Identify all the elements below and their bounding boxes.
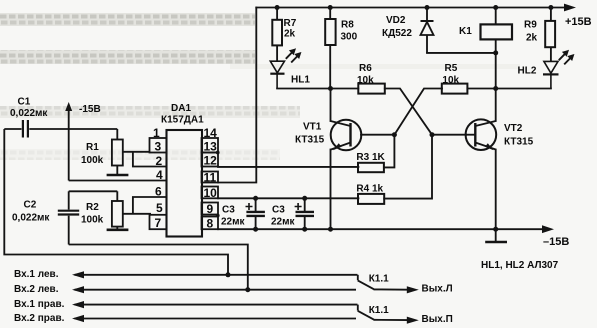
svg-text:КТ315: КТ315 bbox=[295, 135, 325, 146]
wire R6 right diagonal to VT2 base bbox=[385, 89, 432, 135]
svg-text:12: 12 bbox=[204, 154, 218, 168]
svg-text:-15В: -15В bbox=[79, 104, 101, 115]
svg-text:R3 1K: R3 1K bbox=[356, 152, 385, 163]
svg-text:10: 10 bbox=[204, 186, 218, 200]
resistor R1 bbox=[107, 129, 150, 175]
svg-text:С2: С2 bbox=[24, 200, 37, 211]
svg-text:–15В: –15В bbox=[543, 236, 569, 248]
IC pin box 7 bbox=[150, 215, 167, 229]
IC pin box 11 bbox=[202, 172, 219, 183]
svg-text:R1: R1 bbox=[86, 142, 99, 153]
svg-text:2k: 2k bbox=[526, 33, 538, 44]
supply arrow -15V top left bbox=[65, 102, 72, 181]
svg-text:Вх.2 прав.: Вх.2 прав. bbox=[14, 313, 65, 324]
wire node to VT2 base bbox=[432, 134, 466, 136]
svg-text:0,022мк: 0,022мк bbox=[10, 108, 48, 119]
svg-text:DA1: DA1 bbox=[171, 103, 191, 114]
svg-text:R6: R6 bbox=[359, 63, 372, 74]
svg-text:10k: 10k bbox=[442, 75, 459, 86]
IC pin box 8 bbox=[202, 217, 219, 230]
wire left edge C1 drop bbox=[4, 129, 228, 275]
svg-text:100k: 100k bbox=[81, 155, 104, 166]
capacitor C3 second bbox=[295, 198, 314, 229]
LED HL2 bbox=[543, 51, 573, 89]
arrow +15V bbox=[564, 4, 576, 12]
svg-text:Вых.П: Вых.П bbox=[422, 314, 453, 325]
svg-text:10k: 10k bbox=[357, 75, 374, 86]
dot pins 13-12 corner bbox=[216, 151, 220, 155]
wire pin10 line to R4 bbox=[218, 197, 358, 199]
svg-text:2k: 2k bbox=[284, 29, 296, 40]
svg-text:Вх.1 прав.: Вх.1 прав. bbox=[14, 299, 65, 310]
junction dots bottom rail bbox=[253, 227, 258, 232]
svg-text:Вых.Л: Вых.Л bbox=[422, 284, 453, 295]
dot pins 9-8 corner bbox=[216, 214, 220, 218]
svg-text:С3: С3 bbox=[222, 205, 235, 216]
IC pin box 12 bbox=[202, 153, 219, 167]
IC pin box 9 bbox=[202, 203, 219, 215]
transistor VT2 bbox=[466, 119, 497, 150]
svg-text:R2: R2 bbox=[86, 202, 99, 213]
wire C2 drop to input 2 bbox=[69, 245, 248, 290]
junction dot VT2 base bbox=[430, 132, 435, 137]
svg-text:5: 5 bbox=[156, 201, 163, 215]
svg-text:R7: R7 bbox=[284, 18, 297, 29]
input line Vx2 prav bbox=[72, 315, 356, 322]
switch K1.1 left bbox=[358, 280, 408, 289]
svg-text:11: 11 bbox=[204, 171, 217, 185]
input line Vx1 prav bbox=[72, 301, 358, 311]
LED HL1 bbox=[270, 50, 300, 89]
wire VT1 base to node bbox=[361, 134, 394, 136]
wire VT2 emitter bbox=[495, 150, 497, 230]
svg-text:Вх.2 лев.: Вх.2 лев. bbox=[14, 284, 59, 295]
svg-text:HL1, HL2 АЛ307: HL1, HL2 АЛ307 bbox=[481, 260, 559, 271]
svg-text:9: 9 bbox=[207, 202, 214, 216]
IC pin box 13 bbox=[202, 138, 219, 153]
svg-text:К1.1: К1.1 bbox=[369, 274, 389, 285]
resistor R3 bbox=[358, 163, 384, 172]
svg-text:КД522: КД522 bbox=[382, 28, 412, 39]
svg-text:7: 7 bbox=[155, 216, 162, 230]
resistor R7 bbox=[272, 8, 282, 62]
resistor R8 bbox=[325, 8, 335, 89]
wire R5 left diagonal to VT1 base bbox=[394, 89, 442, 135]
svg-text:13: 13 bbox=[204, 140, 218, 154]
svg-text:R9: R9 bbox=[524, 20, 537, 31]
svg-text:К157ДА1: К157ДА1 bbox=[161, 115, 204, 126]
svg-text:+15В: +15В bbox=[565, 16, 592, 28]
wire pin12 to R3 bbox=[218, 166, 358, 168]
svg-text:С3: С3 bbox=[272, 205, 285, 216]
svg-text:К1.1: К1.1 bbox=[369, 305, 389, 316]
wire R1 top feed bbox=[69, 190, 118, 192]
svg-text:R5: R5 bbox=[445, 63, 458, 74]
switch K1.1 right bbox=[358, 311, 408, 320]
svg-text:8: 8 bbox=[207, 217, 214, 231]
junction dots top rail bbox=[253, 5, 553, 232]
svg-text:С1: С1 bbox=[18, 97, 31, 108]
wire K1/VD2/VT2 collector vertical bbox=[495, 8, 497, 25]
input line Vx1 lev bbox=[72, 271, 358, 280]
svg-text:K1: K1 bbox=[459, 26, 472, 37]
capacitor C1 bbox=[4, 120, 117, 138]
resistor R6 bbox=[358, 84, 385, 94]
svg-text:300: 300 bbox=[341, 31, 358, 42]
wire R4 right step up bbox=[384, 135, 432, 199]
wire R3 right step up bbox=[384, 135, 395, 168]
resistor R2 bbox=[107, 191, 129, 230]
svg-text:22мк: 22мк bbox=[221, 217, 246, 228]
capacitor C2 bbox=[58, 191, 79, 244]
dot input1 bbox=[226, 272, 231, 277]
relay coil K1 bbox=[481, 24, 513, 39]
ground bar VT2 emitter bbox=[485, 229, 507, 242]
junction dot HL1 node bbox=[328, 86, 333, 91]
junction dot VT1 base bbox=[392, 132, 397, 137]
dot input2 bbox=[245, 287, 250, 292]
svg-text:HL2: HL2 bbox=[518, 66, 537, 77]
IC pin box 10 bbox=[202, 187, 219, 199]
svg-text:VD2: VD2 bbox=[386, 15, 406, 26]
IC pin box 3 bbox=[150, 138, 167, 153]
wire R5 to HL2 node bbox=[467, 88, 551, 90]
wire top +15V rail bbox=[256, 7, 566, 9]
IC DA1 body bbox=[167, 130, 203, 237]
junction dot R5 node bbox=[493, 86, 498, 91]
svg-text:3: 3 bbox=[155, 140, 162, 154]
capacitor C3 first bbox=[246, 198, 265, 229]
arrow -15V bottom bbox=[542, 225, 554, 233]
resistor R5 bbox=[442, 84, 468, 94]
wire rail left drop to pin 11 bbox=[218, 8, 256, 183]
input line Vx2 lev bbox=[72, 286, 356, 293]
resistor R4 bbox=[358, 194, 384, 204]
wire VD2 bottom link bbox=[427, 52, 496, 54]
svg-text:R8: R8 bbox=[341, 19, 354, 30]
wire VT1 emitter bbox=[330, 150, 332, 230]
transistor VT1 bbox=[331, 120, 362, 151]
svg-text:100k: 100k bbox=[81, 215, 104, 226]
wire bottom -15V rail bbox=[218, 228, 543, 230]
svg-text:КТ315: КТ315 bbox=[504, 137, 534, 148]
svg-text:Вх.1 лев.: Вх.1 лев. bbox=[14, 269, 59, 280]
svg-text:VT1: VT1 bbox=[303, 122, 322, 133]
svg-text:VT2: VT2 bbox=[504, 123, 523, 134]
svg-text:0,022мк: 0,022мк bbox=[12, 213, 50, 224]
diode VD2 bbox=[421, 8, 434, 53]
resistor R9 bbox=[545, 8, 555, 62]
svg-text:HL1: HL1 bbox=[291, 74, 310, 85]
junction dot VD2-K1 bbox=[493, 50, 498, 55]
svg-text:R4 1k: R4 1k bbox=[356, 184, 383, 195]
wire VT1 collector bbox=[330, 89, 332, 122]
wire HL1 node to R6 bbox=[277, 88, 358, 90]
junction dots cap leads top bbox=[253, 196, 258, 201]
svg-text:22мк: 22мк bbox=[271, 217, 296, 228]
